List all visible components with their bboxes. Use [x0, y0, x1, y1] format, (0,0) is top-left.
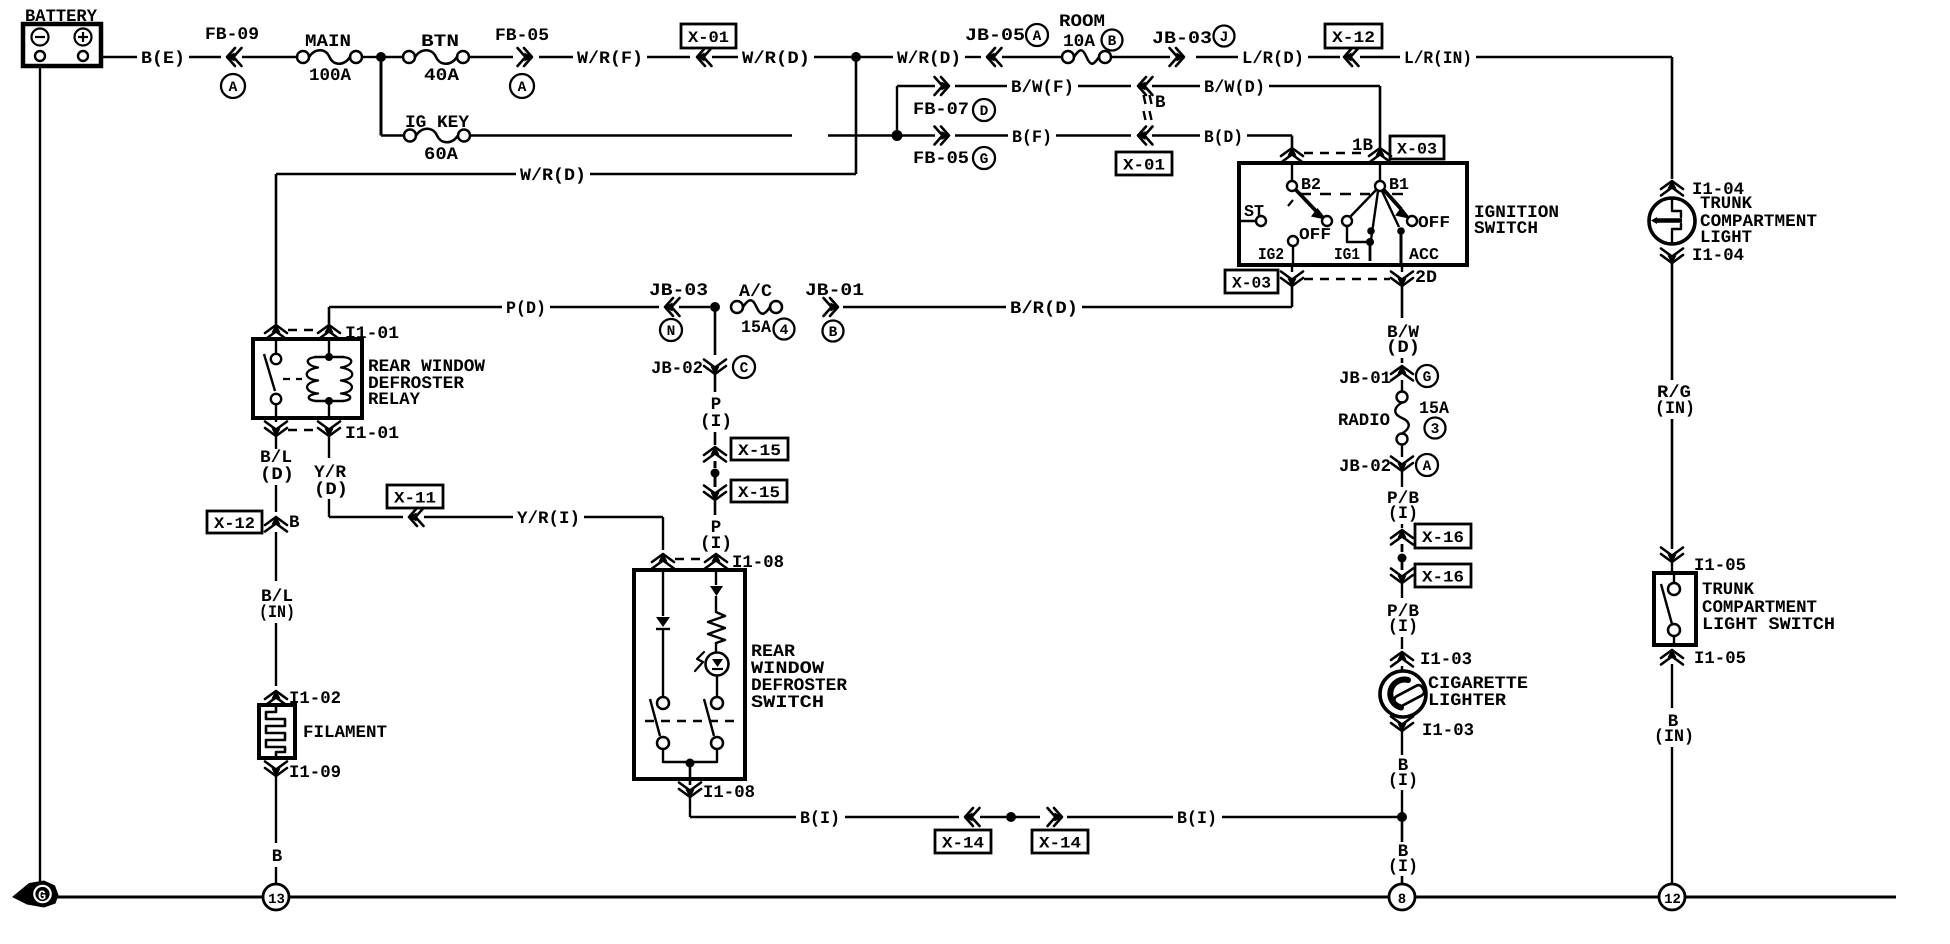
node 13 — [263, 884, 289, 910]
svg-text:(I): (I) — [700, 534, 732, 554]
svg-text:B: B — [1108, 34, 1117, 50]
svg-text:(D): (D) — [260, 465, 294, 485]
svg-text:W/R(D): W/R(D) — [897, 49, 961, 69]
node 12 — [1659, 884, 1685, 910]
defroster switch resistor — [708, 612, 725, 643]
connector relay top I1-01 — [265, 325, 287, 333]
svg-text:60A: 60A — [424, 145, 459, 165]
connector defroster switch top I1-08 — [652, 554, 674, 562]
ignition mechanical link dashed — [1300, 193, 1370, 195]
svg-text:FB-05: FB-05 — [495, 26, 549, 46]
svg-text:OFF: OFF — [1418, 213, 1450, 232]
wire FB-05 to W/R(F) — [539, 56, 573, 58]
svg-text:B: B — [829, 325, 838, 341]
relay coil — [328, 339, 330, 357]
defroster switch indicator LED — [715, 643, 717, 652]
svg-text:10A: 10A — [1063, 32, 1095, 52]
junction B(F) — [892, 130, 903, 141]
svg-text:X-03: X-03 — [1397, 140, 1437, 158]
svg-text:JB-05: JB-05 — [965, 26, 1025, 46]
svg-text:RELAY: RELAY — [368, 390, 420, 410]
junction B(I) — [980, 816, 1006, 818]
svg-text:B/W(F): B/W(F) — [1011, 78, 1074, 98]
wire junction up to B/W row — [896, 86, 898, 136]
connector FB-07 D — [897, 85, 935, 87]
svg-text:A: A — [229, 80, 238, 96]
ignition terminal ACC — [1382, 191, 1399, 227]
wire JB-05 to fuse ROOM — [1002, 56, 1062, 58]
wire junction to fuse BTN — [381, 56, 403, 58]
svg-text:L/R(D): L/R(D) — [1242, 49, 1304, 69]
svg-text:TRUNK: TRUNK — [1702, 580, 1754, 600]
ground G symbol — [12, 881, 59, 908]
junction X-16 — [1398, 554, 1407, 563]
wire W/R(D) row to relay — [590, 173, 856, 175]
ignition switch U1 box — [1239, 163, 1467, 265]
connector X-14 left — [965, 808, 973, 826]
defroster switch left branch diode D1 — [662, 570, 664, 616]
wire B/L(D) — [275, 436, 277, 449]
svg-text:G: G — [38, 890, 46, 905]
svg-text:X-01: X-01 — [688, 29, 729, 47]
wire B(IN) — [1671, 664, 1673, 708]
svg-text:B: B — [289, 513, 300, 533]
connector I1-04 bottom — [1661, 255, 1683, 263]
svg-text:I1-03: I1-03 — [1422, 721, 1474, 741]
svg-text:W/R(D): W/R(D) — [520, 166, 586, 186]
ignition IG2 wire out — [1292, 246, 1294, 263]
junction P(D) — [710, 302, 720, 312]
svg-text:2D: 2D — [1415, 268, 1437, 288]
svg-text:ACC: ACC — [1409, 245, 1439, 264]
svg-text:FB-07: FB-07 — [913, 100, 969, 120]
svg-text:13: 13 — [268, 892, 285, 908]
wire to fuse MAIN — [242, 56, 297, 58]
svg-text:JB-01: JB-01 — [1339, 369, 1391, 389]
junction node8 column — [1397, 812, 1407, 822]
wire B(I) to node 8 — [1401, 817, 1404, 842]
wire B to ground node 13 — [275, 776, 277, 843]
svg-text:B(F): B(F) — [1012, 128, 1052, 148]
wire B/W(D) down to ignition B1 — [1379, 86, 1382, 147]
svg-text:A: A — [1033, 29, 1042, 45]
wire B(I) from defroster — [689, 797, 691, 817]
svg-text:I1-04: I1-04 — [1692, 246, 1744, 266]
ignition terminal B1 — [1375, 181, 1385, 191]
connector I1-03 bottom — [1391, 723, 1413, 731]
defroster switch right branch diode — [715, 570, 717, 585]
svg-text:P(D): P(D) — [506, 299, 546, 319]
svg-text:X-15: X-15 — [738, 442, 781, 460]
svg-text:I1-01: I1-01 — [345, 424, 399, 444]
wire B/W(D) — [1152, 85, 1200, 87]
svg-text:B(I): B(I) — [800, 809, 840, 829]
svg-text:IG1: IG1 — [1334, 245, 1360, 264]
wire P(D) junction down — [714, 307, 717, 355]
svg-text:SWITCH: SWITCH — [1474, 219, 1538, 239]
wire B/L(IN) — [275, 532, 277, 581]
svg-text:A/C: A/C — [739, 282, 773, 302]
wire B(E) from battery — [101, 56, 137, 58]
wire P(I) lower — [714, 500, 717, 515]
trunk compartment light switch — [1671, 562, 1673, 573]
svg-text:I1-09: I1-09 — [289, 763, 341, 783]
junction defroster output — [686, 759, 695, 768]
svg-text:B1: B1 — [1389, 175, 1409, 194]
connector X-12 B — [207, 511, 262, 533]
wire fuse BTN to FB-05 — [469, 56, 513, 58]
connector X-15 lower — [704, 492, 726, 500]
wire P/B(I) upper — [1401, 471, 1403, 487]
wire junction down to IG KEY — [380, 57, 383, 136]
svg-text:MAIN: MAIN — [305, 32, 351, 52]
svg-text:1B: 1B — [1352, 136, 1373, 156]
svg-text:JB-03: JB-03 — [1152, 29, 1212, 49]
connector B tie B/W — [1138, 77, 1146, 95]
svg-text:G: G — [980, 152, 989, 168]
wire IG2 down to B/R(D) — [1291, 286, 1294, 307]
ignition blade B1 to OFF — [1384, 190, 1401, 209]
wire P(D) from relay coil — [329, 306, 502, 308]
svg-text:X-16: X-16 — [1422, 529, 1464, 547]
junction X-15 — [711, 469, 720, 478]
connector X-01 lower — [1138, 127, 1146, 145]
svg-text:I1-08: I1-08 — [703, 783, 755, 803]
wire B(D) down to ignition B2 — [1291, 136, 1294, 148]
svg-text:JB-01: JB-01 — [805, 281, 864, 301]
ignition terminal IG2 — [1288, 236, 1298, 246]
svg-text:X-12: X-12 — [1332, 29, 1375, 47]
svg-text:LIGHTER: LIGHTER — [1428, 691, 1507, 711]
connector I1-02 — [265, 691, 287, 699]
wire battery negative down — [39, 66, 41, 884]
svg-text:D: D — [980, 104, 989, 120]
svg-text:B: B — [1155, 93, 1166, 113]
svg-text:B: B — [272, 847, 283, 867]
svg-text:G: G — [1423, 370, 1432, 386]
svg-text:FB-09: FB-09 — [205, 25, 259, 45]
wire fuse MAIN to junction — [362, 56, 377, 58]
svg-text:12: 12 — [1664, 892, 1681, 908]
connector I1-03 top — [1391, 652, 1413, 660]
connector defroster bottom I1-08 — [679, 789, 701, 797]
svg-text:JB-02: JB-02 — [651, 359, 703, 379]
wire B/W(D) below ignition — [1401, 286, 1404, 318]
svg-text:X-01: X-01 — [1123, 156, 1165, 174]
svg-text:IG2: IG2 — [1258, 245, 1284, 264]
wire L/R(IN) — [1360, 56, 1400, 58]
connector I1-05 bottom — [1661, 650, 1683, 658]
wire B(F) from junction — [897, 134, 935, 136]
ignition blade B1 contacts — [1350, 189, 1377, 217]
svg-text:FILAMENT: FILAMENT — [303, 723, 387, 743]
wire R/G(IN) — [1671, 260, 1674, 380]
svg-text:FB-05: FB-05 — [913, 149, 969, 169]
connector ignition top 1B X-03 — [1281, 148, 1303, 156]
svg-text:I1-05: I1-05 — [1694, 649, 1746, 669]
svg-text:3: 3 — [1431, 422, 1440, 438]
svg-text:I1-05: I1-05 — [1694, 556, 1746, 576]
svg-text:BTN: BTN — [421, 32, 459, 52]
wire P(I) upper — [714, 374, 717, 392]
svg-text:JB-02: JB-02 — [1339, 457, 1391, 477]
svg-text:W/R(F): W/R(F) — [577, 49, 643, 69]
svg-text:X-16: X-16 — [1422, 568, 1464, 586]
relay K1 box — [253, 339, 362, 418]
svg-text:I1-03: I1-03 — [1420, 650, 1472, 670]
connector FB-05 G — [941, 127, 949, 145]
svg-text:(I): (I) — [1388, 857, 1418, 877]
wire down to defroster relay — [275, 174, 278, 332]
svg-text:(D): (D) — [314, 480, 348, 500]
svg-text:(IN): (IN) — [259, 603, 295, 623]
wire to connector X-01 — [647, 56, 690, 58]
svg-text:LIGHT: LIGHT — [1700, 228, 1752, 248]
svg-text:(I): (I) — [1388, 504, 1418, 524]
svg-text:4: 4 — [780, 323, 789, 339]
wire relay coil feed — [328, 307, 331, 332]
svg-text:X-14: X-14 — [1039, 834, 1081, 852]
wire W/R(D) vertical — [855, 57, 858, 174]
connector X-16 lower — [1391, 575, 1413, 583]
connector I1-09 — [265, 768, 287, 776]
svg-text:LIGHT SWITCH: LIGHT SWITCH — [1702, 615, 1835, 635]
svg-text:B/R(D): B/R(D) — [1010, 299, 1078, 319]
svg-text:100A: 100A — [309, 66, 351, 86]
svg-text:(I): (I) — [700, 412, 732, 432]
svg-text:N: N — [667, 324, 676, 340]
connector JB-02 A — [1401, 444, 1403, 457]
defroster switch SW1 box — [634, 570, 745, 779]
svg-text:15A: 15A — [741, 318, 771, 338]
svg-text:(IN): (IN) — [1655, 399, 1695, 419]
connector X-16 upper — [1391, 530, 1413, 538]
svg-text:W/R(D): W/R(D) — [742, 49, 810, 69]
wire fuse ROOM to JB-03 — [1111, 56, 1170, 58]
wire B(F) label — [955, 134, 1008, 136]
svg-text:40A: 40A — [424, 66, 460, 86]
connector X-01 — [681, 24, 736, 48]
svg-text:X-14: X-14 — [942, 834, 984, 852]
wire P/B(I) lower — [1401, 583, 1403, 598]
connector X-12 top — [1325, 24, 1382, 48]
connector ignition bottom X-03 2D — [1291, 265, 1293, 272]
connector X-11 — [329, 516, 403, 518]
wire L/R(IN) down — [1671, 57, 1674, 179]
svg-text:A: A — [1423, 459, 1432, 475]
svg-text:15A: 15A — [1419, 399, 1449, 419]
connector X-14 right — [1054, 808, 1062, 826]
svg-text:(I): (I) — [1388, 771, 1418, 791]
wire L/R(D) — [1196, 56, 1238, 58]
ignition terminal B2 — [1287, 181, 1297, 191]
svg-text:ROOM: ROOM — [1059, 12, 1105, 32]
connector X-15 upper — [704, 447, 726, 455]
relay switch contacts — [275, 339, 277, 354]
svg-text:B(E): B(E) — [141, 49, 185, 69]
svg-text:X-03: X-03 — [1232, 274, 1271, 292]
svg-text:TRUNK: TRUNK — [1700, 194, 1752, 214]
svg-text:SWITCH: SWITCH — [751, 693, 824, 713]
trunk compartment light — [1649, 198, 1695, 244]
wire JB-03 to junction — [679, 306, 710, 308]
svg-text:B2: B2 — [1301, 175, 1321, 194]
wire B/R(D) — [843, 306, 1006, 308]
svg-text:J: J — [1220, 30, 1229, 46]
svg-text:L/R(IN): L/R(IN) — [1404, 49, 1472, 69]
wire junction to JB-05 — [856, 56, 893, 58]
wire B(D) — [1152, 134, 1200, 136]
svg-text:8: 8 — [1398, 892, 1406, 908]
filament box — [275, 703, 277, 705]
junction W/R(D) — [851, 52, 861, 62]
svg-text:B(D): B(D) — [1204, 128, 1243, 148]
junction main feed — [376, 52, 386, 62]
svg-text:C: C — [740, 361, 749, 377]
connector I1-04 top — [1661, 181, 1683, 189]
connector I1-05 top — [1661, 554, 1683, 562]
wire IG KEY to junction B(F) — [470, 134, 792, 136]
svg-text:X-11: X-11 — [394, 489, 436, 507]
svg-text:B(I): B(I) — [1177, 809, 1217, 829]
ignition blade B2 to OFF — [1288, 200, 1293, 206]
defroster switch poles — [657, 697, 669, 709]
svg-text:X-12: X-12 — [214, 515, 255, 533]
wire B(I) to node 8 column — [1067, 816, 1173, 818]
svg-text:X-15: X-15 — [738, 484, 780, 502]
node 8 — [1389, 884, 1415, 910]
wire Y/R(I) — [424, 516, 513, 518]
cigarette lighter — [1380, 671, 1426, 717]
svg-text:B/W(D): B/W(D) — [1204, 78, 1265, 98]
svg-text:(IN): (IN) — [1654, 727, 1694, 747]
svg-text:(D): (D) — [1386, 338, 1420, 358]
wire B/W(F) — [955, 85, 1007, 87]
svg-text:Y/R(I): Y/R(I) — [517, 509, 580, 529]
svg-text:A: A — [518, 80, 527, 96]
svg-text:(I): (I) — [1388, 617, 1418, 637]
svg-text:OFF: OFF — [1299, 225, 1331, 244]
ground bus — [40, 896, 263, 899]
wire Y/R(D) — [328, 436, 330, 458]
wire B(I) to junction — [1401, 731, 1403, 755]
wire W/R(D) label top — [712, 56, 738, 58]
connector relay bottom I1-01 — [275, 404, 277, 422]
svg-text:RADIO: RADIO — [1338, 411, 1390, 431]
